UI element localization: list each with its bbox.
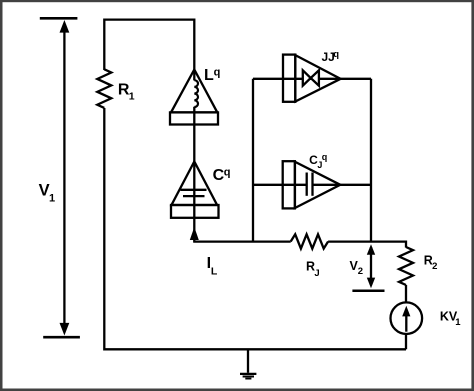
svg-text:1: 1 (49, 193, 55, 205)
svg-text:1: 1 (129, 91, 135, 103)
label V2 (350, 259, 363, 277)
svg-text:C: C (213, 167, 225, 184)
svg-text:1: 1 (455, 317, 461, 328)
svg-text:2: 2 (432, 261, 437, 272)
wire R1 bottom + bottom wire (104, 108, 406, 349)
current arrow IL on wire (190, 227, 199, 240)
current source KV1 (391, 302, 423, 349)
mid wire left (193, 240, 291, 242)
wire CJ level (253, 184, 307, 186)
label V1 (39, 181, 56, 204)
label R2 (424, 254, 438, 272)
wire Lq branch upper (193, 19, 195, 81)
ground (240, 349, 256, 378)
svg-text:V: V (39, 181, 50, 199)
svg-text:L: L (211, 266, 218, 278)
svg-text:q: q (322, 152, 328, 162)
voltage arrow V2 (352, 244, 384, 291)
svg-text:2: 2 (358, 266, 363, 277)
svg-text:J: J (314, 268, 319, 279)
left bus wire (252, 79, 254, 242)
wire R1 top + top wire (104, 20, 194, 70)
capacitor Cq (171, 162, 219, 218)
svg-text:q: q (214, 67, 221, 79)
josephson junction JJq (283, 55, 341, 102)
label IL (207, 255, 218, 277)
resistor RJ (291, 234, 328, 248)
label CJq (309, 152, 327, 170)
label R1 (118, 82, 135, 103)
label Cq (213, 166, 231, 184)
svg-text:q: q (333, 49, 339, 60)
label Lq (204, 67, 220, 84)
voltage arrow V1 (40, 18, 80, 337)
resistor R1 (97, 69, 111, 108)
right bus wire (370, 79, 372, 242)
resistor R2 (399, 247, 413, 303)
capacitor CJq (283, 161, 341, 208)
wire Lq branch down through components to mid wire (193, 107, 195, 242)
wire JJ level (253, 78, 371, 80)
mid wire right + corner into R2 (328, 242, 406, 248)
label RJ (306, 260, 320, 279)
svg-text:L: L (204, 67, 214, 84)
inductor Lq (170, 70, 218, 125)
svg-text:q: q (224, 166, 231, 178)
label JJq (322, 49, 340, 64)
label KV1 (440, 310, 461, 328)
